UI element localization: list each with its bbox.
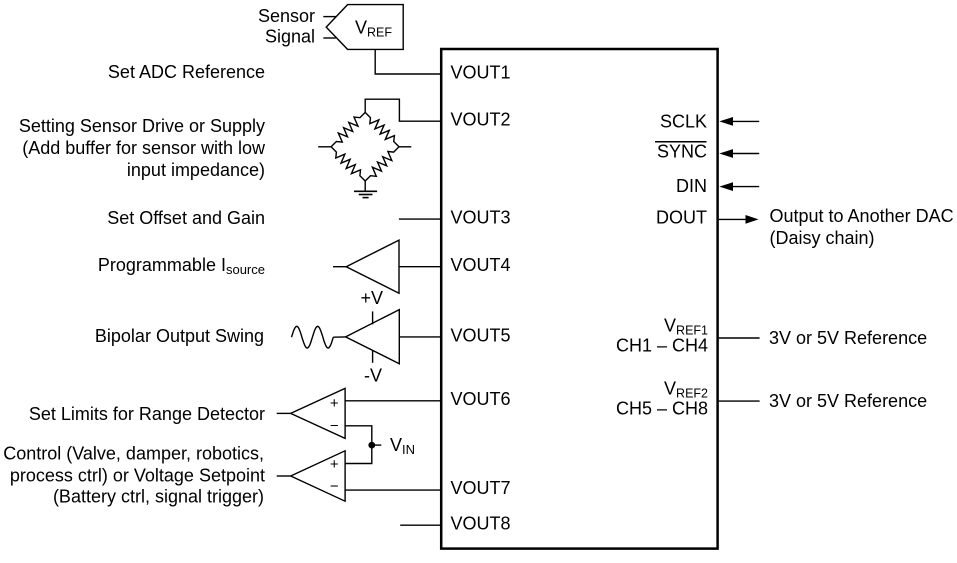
svg-text:Sensor: Sensor [258,6,315,26]
wire VOUT8 [400,524,441,526]
svg-text:Set ADC Reference: Set ADC Reference [108,62,265,82]
wire DOUT [719,218,746,220]
wire VOUT4 [399,266,442,268]
svg-text:Set Limits for Range Detector: Set Limits for Range Detector [29,404,265,424]
svg-text:input impedance): input impedance) [127,160,265,180]
bridge left node stub [318,146,331,148]
svg-text:SYNC: SYNC [657,142,707,162]
wire VREF2 [719,400,760,402]
node VIN junction dot [368,442,375,449]
A1 output stub [333,266,346,268]
wire VREF1 [719,337,760,339]
svg-text:CH5 – CH8: CH5 – CH8 [616,399,708,419]
svg-text:(Add buffer for sensor with lo: (Add buffer for sensor with low [22,138,266,158]
resistor R1 (bridge top-left arm) [331,112,365,146]
arrow out of DOUT [746,215,759,224]
arrow into DIN [719,182,733,191]
ground bar 3 [363,197,369,199]
comparator U3 (VOUT7) [291,451,345,501]
bridge right node stub [399,146,411,148]
svg-text:process ctrl) or Voltage Setpo: process ctrl) or Voltage Setpoint [10,466,265,486]
wire Vref block to VOUT1 [375,49,441,74]
sensor input stub (lower) [323,37,336,39]
svg-text:(Daisy chain): (Daisy chain) [770,228,875,248]
ground stem [364,181,366,191]
svg-text:Control (Valve, damper, roboti: Control (Valve, damper, robotics, [3,443,264,463]
wire DIN [733,186,760,188]
svg-text:VOUT7: VOUT7 [451,478,511,498]
svg-text:Setting Sensor Drive or Supply: Setting Sensor Drive or Supply [19,116,265,136]
op-amp A2 (VOUT5) [346,310,400,364]
svg-text:−: − [330,417,339,434]
svg-text:+: + [330,456,339,473]
resistor R2 (bridge top-right arm) [365,112,399,146]
U3 output stub [277,475,291,477]
svg-text:3V or 5V Reference: 3V or 5V Reference [769,328,927,348]
Vref source block outline [326,5,403,50]
wire bridge top to VOUT2 [365,99,441,121]
wire VOUT5 [399,336,441,338]
svg-text:VOUT3: VOUT3 [451,208,511,228]
svg-text:VREF2: VREF2 [664,379,708,401]
wire U2 - input to VIN node [345,426,372,464]
svg-text:Signal: Signal [265,27,315,47]
+V supply stub [372,311,374,324]
wire SYNC [733,153,760,155]
svg-text:VREF1: VREF1 [664,316,708,338]
svg-text:VIN: VIN [390,435,415,457]
svg-text:SCLK: SCLK [660,111,707,131]
wire VOUT6 to U2 + input [345,400,441,402]
ground bar 2 [359,194,373,196]
SYNC overline [655,141,707,143]
wire VOUT7 from U3 - input [345,489,441,491]
svg-text:-V: -V [364,365,382,385]
svg-text:VREF: VREF [355,17,392,39]
svg-text:−: − [330,478,339,495]
resistor R4 (bridge bottom-right arm) [365,147,399,181]
arrow into SYNC [719,149,733,158]
svg-text:VOUT4: VOUT4 [451,255,511,275]
wire SCLK [733,120,760,122]
op-amp buffer A1 (VOUT4) [346,240,399,293]
svg-text:VOUT8: VOUT8 [451,514,511,534]
svg-text:Set Offset and Gain: Set Offset and Gain [107,208,265,228]
svg-text:+: + [330,395,339,412]
svg-text:Bipolar Output Swing: Bipolar Output Swing [95,326,264,346]
wire sine to A2 input [333,336,345,338]
VIN stub [375,444,382,446]
sine wave source [292,326,334,348]
wire VOUT3 [399,218,442,220]
ground bar 1 [354,190,377,192]
svg-text:+V: +V [361,288,384,308]
svg-text:DIN: DIN [676,176,707,196]
resistor R3 (bridge bottom-left arm) [331,147,365,181]
svg-text:VOUT1: VOUT1 [451,63,511,83]
svg-text:Programmable Isource: Programmable Isource [98,255,265,277]
svg-text:VOUT5: VOUT5 [451,325,511,345]
U2 output stub [277,412,291,414]
svg-text:3V or 5V Reference: 3V or 5V Reference [769,391,927,411]
-V supply stub [372,351,374,363]
arrow into SCLK [719,117,733,126]
sensor input stub (upper) [323,16,336,18]
svg-text:VOUT6: VOUT6 [451,389,511,409]
svg-text:DOUT: DOUT [656,208,707,228]
svg-text:CH1 – CH4: CH1 – CH4 [616,336,708,356]
svg-text:Output to Another DAC: Output to Another DAC [770,206,954,226]
svg-text:(Battery ctrl, signal trigger): (Battery ctrl, signal trigger) [53,487,264,507]
comparator U2 (VOUT6) [291,388,345,438]
svg-text:VOUT2: VOUT2 [451,110,511,130]
DAC block U1 (main box) [441,49,717,549]
